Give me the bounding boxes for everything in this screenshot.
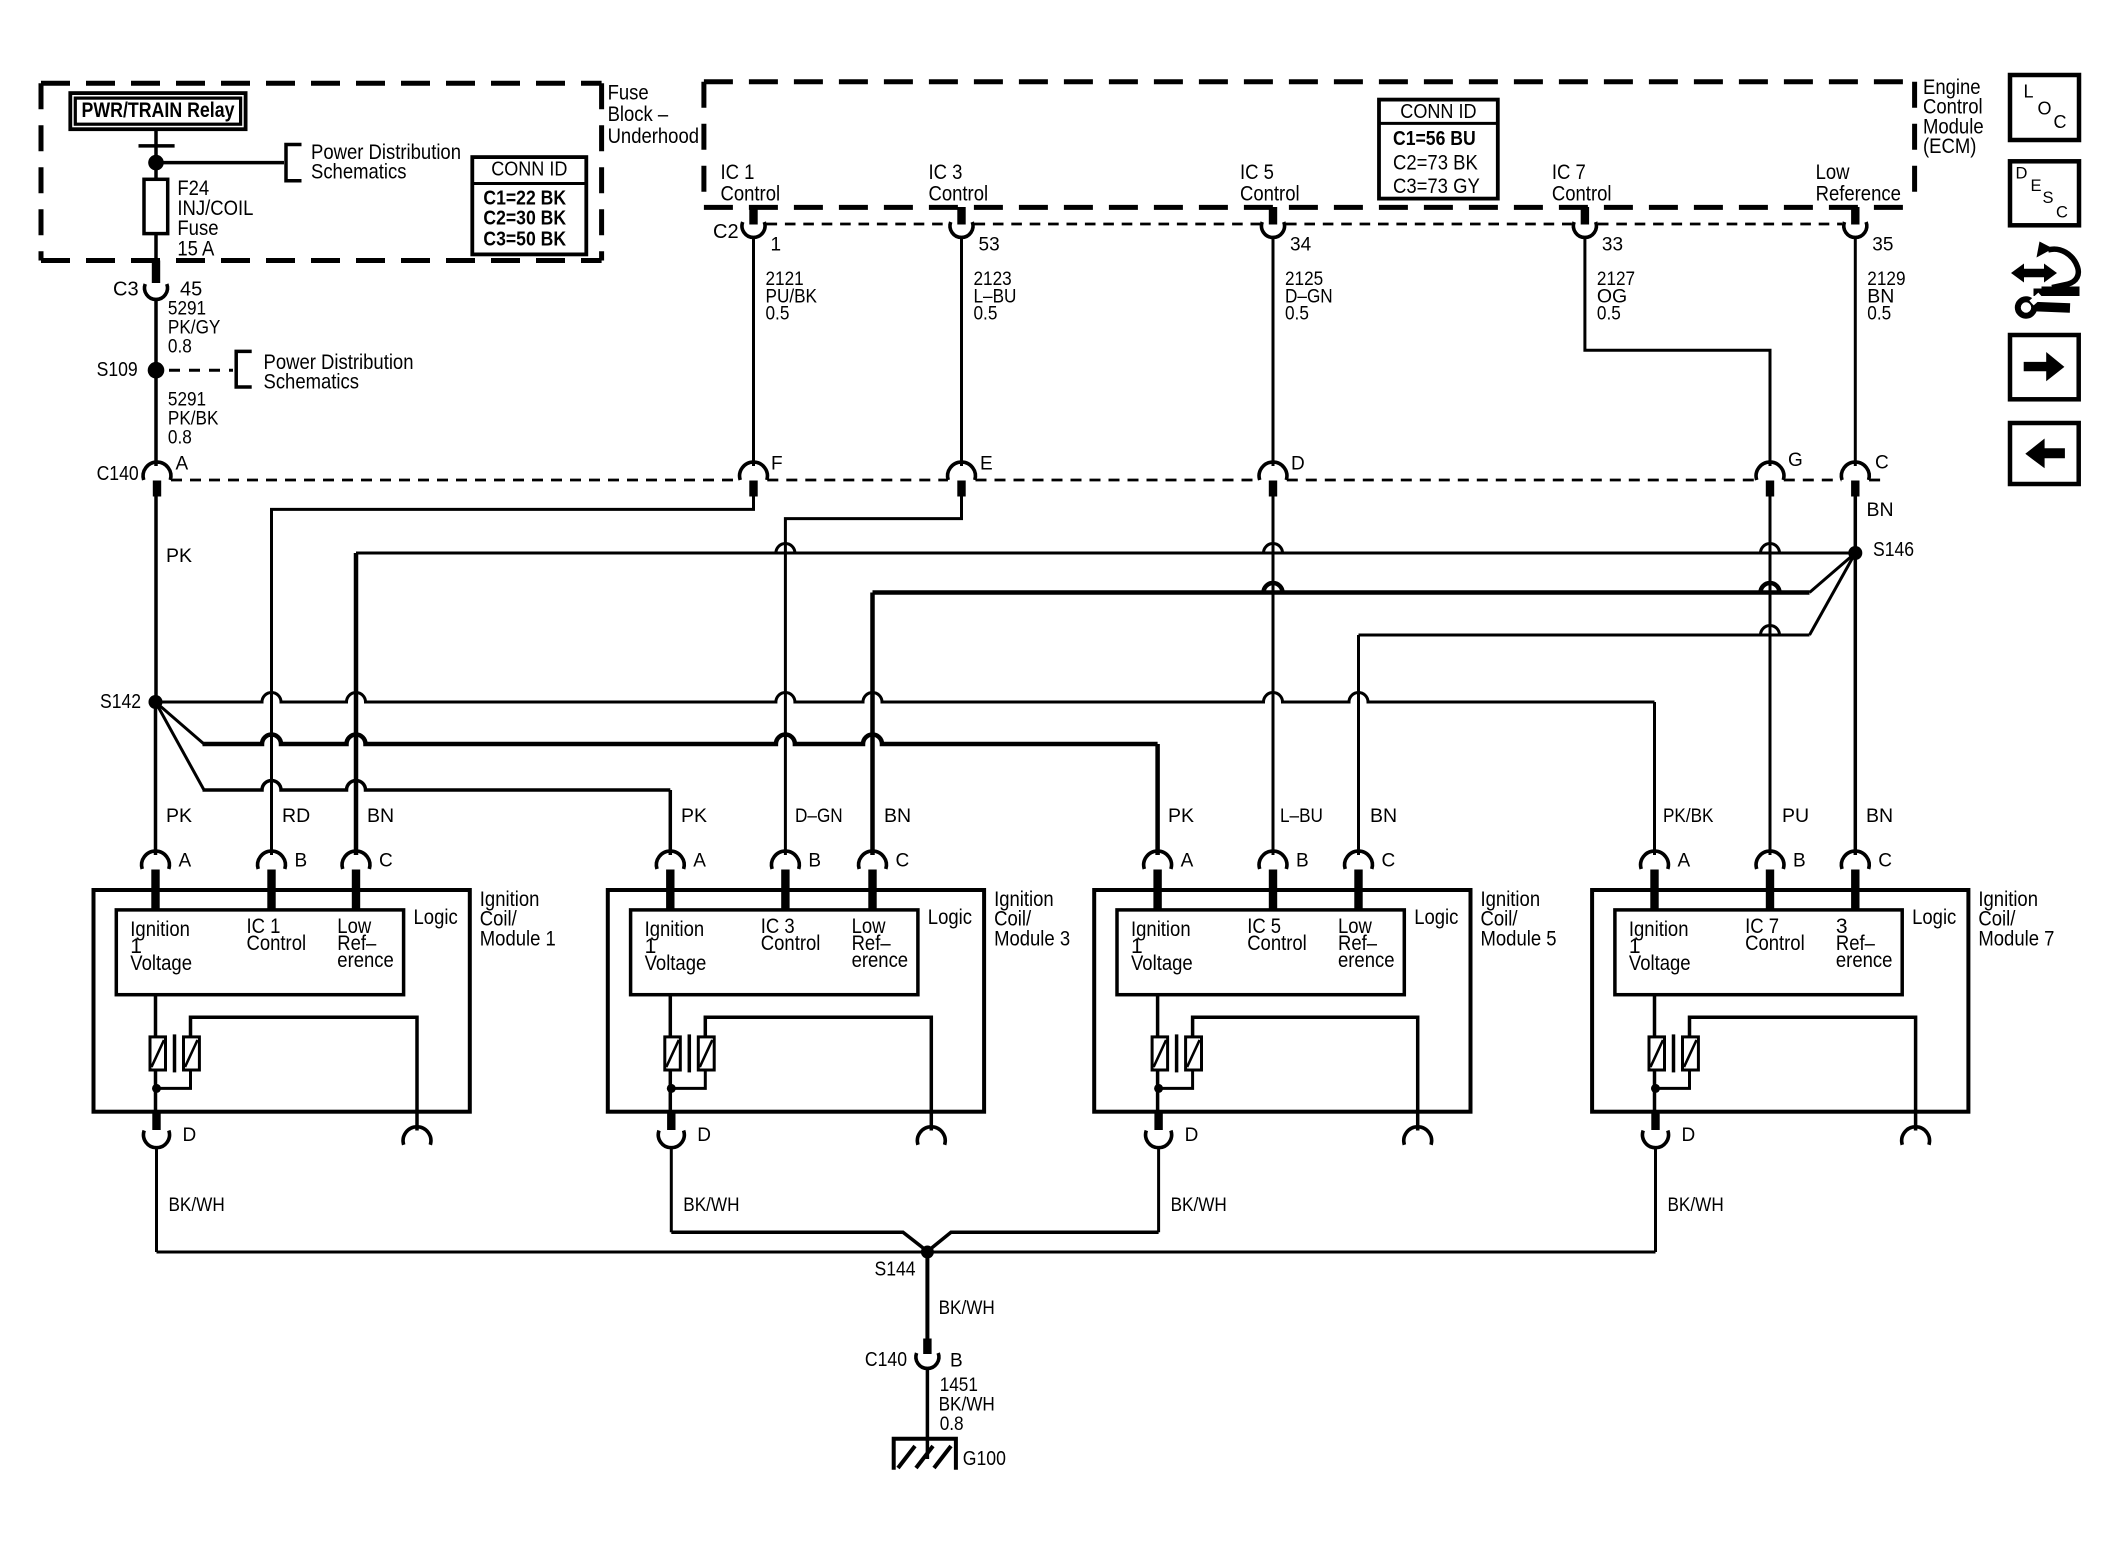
module 5 coil secondary winding — [1186, 1037, 1202, 1070]
module 3 side label — [994, 888, 1070, 951]
wire label 1451 BK/WH 0.8 — [939, 1374, 995, 1435]
module 7 pin A — [1641, 851, 1669, 910]
module 1 pin D — [144, 1112, 170, 1148]
svg-text:BN: BN — [1867, 499, 1894, 521]
wire IC7 control (2127) with jog — [1585, 237, 1770, 466]
module 3 spark output pin — [917, 1127, 945, 1145]
svg-text:C1=22 BK: C1=22 BK — [483, 187, 566, 209]
module 3 coil secondary winding — [698, 1037, 714, 1070]
module 3 coil primary winding — [665, 1037, 681, 1070]
svg-text:Control: Control — [1552, 182, 1612, 205]
svg-text:D: D — [1291, 453, 1305, 474]
module 5 pin C — [1345, 851, 1373, 910]
svg-text:O: O — [2038, 99, 2052, 119]
svg-text:S146: S146 — [1873, 539, 1914, 561]
svg-text:Logic: Logic — [1414, 906, 1458, 929]
module 3 coil junction dot — [667, 1084, 676, 1093]
svg-text:0.8: 0.8 — [168, 335, 192, 357]
label pin B module 3 — [808, 850, 821, 871]
svg-text:C: C — [896, 850, 910, 871]
svg-text:Low: Low — [1816, 161, 1851, 184]
svg-text:D: D — [1682, 1125, 1696, 1146]
label pin 34 — [1290, 234, 1312, 255]
icon LOC — [2010, 75, 2079, 140]
power distribution schematics label (S109) — [264, 351, 414, 394]
svg-text:B: B — [1296, 850, 1309, 871]
label pin A module 7 — [1678, 850, 1691, 871]
module 1 wire secondary bottom link — [157, 1070, 191, 1088]
BN bus S146 to module3 pin C — [873, 583, 1810, 855]
BK/WH bus — [157, 1251, 1656, 1254]
svg-text:C2=73 BK: C2=73 BK — [1393, 152, 1478, 175]
svg-text:erence: erence — [852, 949, 909, 972]
junction dot at relay output — [148, 155, 164, 171]
S146 diagonal to BN bus 3 — [1810, 553, 1856, 635]
svg-text:BK/WH: BK/WH — [169, 1194, 225, 1216]
module 3 Logic label — [928, 906, 972, 929]
svg-text:Control: Control — [721, 182, 781, 205]
S146 diagonal to BN bus 2 — [1810, 553, 1856, 593]
module 5 pin B — [1259, 851, 1287, 910]
label C (C140) — [1875, 452, 1889, 473]
module 1 side label — [480, 888, 556, 951]
label B — [950, 1350, 963, 1371]
svg-text:PWR/TRAIN Relay: PWR/TRAIN Relay — [82, 98, 235, 122]
svg-text:S: S — [2043, 189, 2054, 207]
PK bus S142 to module7 pin A — [156, 693, 1655, 856]
svg-text:C: C — [1878, 850, 1892, 871]
label pin C module 5 — [1382, 850, 1396, 871]
svg-text:0.5: 0.5 — [1285, 303, 1309, 325]
module 3 pin D — [658, 1112, 684, 1148]
bracket S109 power distribution — [236, 351, 252, 387]
label IC 3 Control — [929, 161, 989, 206]
module 1 coil primary winding — [150, 1037, 166, 1070]
wire D to module5 pin B — [1272, 497, 1275, 856]
ignition coil/module 1 box — [94, 890, 470, 1112]
module 7 spark output pin — [1902, 1127, 1930, 1145]
label pin A module 1 — [179, 850, 192, 871]
module 1 pin C — [342, 851, 370, 910]
icon back arrow — [2010, 423, 2079, 484]
wire label 5291 PK/BK 0.8 — [168, 389, 219, 449]
svg-text:IC 5: IC 5 — [1240, 161, 1274, 184]
ECM pin 1 (C2 connector) — [742, 207, 765, 237]
module 1 wire logic to coil — [154, 995, 158, 1037]
icon forward arrow — [2010, 335, 2079, 399]
ECM pin 53 (C2 connector) — [950, 207, 973, 237]
label IC 5 Control — [1240, 161, 1300, 206]
label pin A module 3 — [693, 850, 706, 871]
dashed link S109 to bracket — [169, 369, 233, 372]
module 1 coil secondary winding — [184, 1037, 200, 1070]
fuse F24 symbol — [144, 179, 168, 233]
svg-text:BN: BN — [884, 805, 911, 827]
label A — [176, 454, 189, 475]
wire label 2125 D–GN 0.5 — [1285, 268, 1333, 324]
connector C2 dashed line — [767, 223, 1843, 226]
svg-text:PK: PK — [166, 805, 192, 827]
label pin C module 7 — [1878, 850, 1892, 871]
BN bus S146 to module1 pin C — [356, 544, 1849, 856]
wire junction to power distribution bracket — [156, 161, 284, 165]
BN bus S146 to module5 pin C — [1359, 626, 1810, 856]
svg-text:BN: BN — [367, 805, 394, 827]
module 1 coil core — [173, 1034, 177, 1072]
svg-text:Schematics: Schematics — [311, 161, 407, 184]
label C140 (bottom) — [865, 1349, 907, 1371]
svg-text:PU: PU — [1782, 805, 1809, 827]
svg-text:1: 1 — [771, 234, 782, 255]
label IC 7 Control — [1552, 161, 1612, 206]
label E — [980, 453, 993, 474]
module 7 wire logic to coil — [1653, 995, 1657, 1037]
module 5 coil junction dot — [1154, 1084, 1163, 1093]
svg-text:Voltage: Voltage — [1131, 952, 1193, 975]
svg-text:C: C — [2054, 112, 2067, 132]
svg-text:Module 5: Module 5 — [1481, 927, 1557, 950]
svg-text:C: C — [379, 850, 393, 871]
label pin D module 7 — [1682, 1125, 1696, 1146]
wire from relay to fuse — [154, 129, 158, 179]
ignition coil/module 3 box — [608, 890, 984, 1112]
ignition coil/module 7 box — [1592, 890, 1968, 1112]
conn id table (fuse block) — [472, 157, 586, 254]
svg-text:G: G — [1788, 450, 1803, 471]
module 3 coil core — [688, 1034, 692, 1072]
label D (C140) — [1291, 453, 1305, 474]
fuse block label — [608, 81, 699, 148]
svg-text:35: 35 — [1872, 234, 1893, 255]
module 5 wire primary to pin D — [1156, 1070, 1160, 1112]
label Low Reference — [1816, 161, 1901, 206]
svg-text:G100: G100 — [963, 1448, 1006, 1470]
svg-text:D: D — [2016, 165, 2028, 183]
svg-text:C3=50 BK: C3=50 BK — [483, 228, 566, 250]
module 3 wire logic to coil — [669, 995, 673, 1037]
wire S109 to C140 A — [154, 370, 158, 466]
label pin 53 — [979, 234, 1000, 255]
label pin C module 3 — [896, 850, 910, 871]
svg-text:C140: C140 — [865, 1349, 907, 1371]
svg-text:A: A — [1678, 850, 1691, 871]
module 7 coil secondary winding — [1683, 1037, 1699, 1070]
svg-text:S109: S109 — [97, 359, 138, 381]
module 1 spark output pin — [403, 1127, 431, 1145]
svg-text:PK: PK — [166, 545, 192, 567]
label pin 33 — [1602, 234, 1623, 255]
svg-text:0.5: 0.5 — [1867, 303, 1891, 325]
svg-text:(ECM): (ECM) — [1923, 135, 1976, 158]
svg-text:PK: PK — [681, 805, 707, 827]
wire module5 pin D down — [1157, 1147, 1160, 1232]
module 7 BK/WH label — [1668, 1194, 1724, 1216]
wire label 2129 BN 0.5 — [1867, 268, 1905, 324]
module 3 wire secondary to spark output — [705, 1017, 931, 1130]
label G — [1788, 450, 1803, 471]
power distribution schematics label (top) — [311, 141, 461, 184]
svg-text:S142: S142 — [100, 691, 141, 713]
module 3 pin B — [772, 851, 800, 910]
ECM label — [1923, 76, 1984, 158]
module 7 pin C — [1841, 851, 1869, 910]
svg-text:B: B — [808, 850, 821, 871]
label pin B module 5 — [1296, 850, 1309, 871]
svg-text:A: A — [179, 850, 192, 871]
S142 diagonal to PK bus 3 — [156, 702, 205, 790]
module 5 pin A — [1144, 851, 1172, 910]
svg-text:C2: C2 — [713, 221, 739, 243]
label BN (above S146) — [1867, 499, 1894, 521]
module 1 pin A — [142, 851, 170, 910]
module 5 wire color labels — [1168, 805, 1397, 827]
svg-text:15 A: 15 A — [177, 237, 214, 260]
label IC 1 Control — [721, 161, 781, 206]
label pin D module 5 — [1185, 1125, 1199, 1146]
svg-text:Logic: Logic — [414, 906, 458, 929]
fuse F24 label — [177, 177, 253, 261]
module 1 BK/WH label — [169, 1194, 225, 1216]
connector C140 pin C — [1841, 462, 1869, 496]
svg-text:C1=56 BU: C1=56 BU — [1393, 128, 1476, 150]
module 1 Logic label — [414, 906, 458, 929]
module 7 coil junction dot — [1651, 1084, 1660, 1093]
module 7 wire color labels — [1663, 805, 1893, 827]
svg-text:E: E — [2031, 177, 2042, 195]
svg-text:C2=30 BK: C2=30 BK — [483, 208, 566, 230]
module 7 wire primary to pin D — [1653, 1070, 1657, 1112]
label C140 (left) — [97, 463, 139, 485]
wire fuse to C3 — [154, 234, 158, 265]
module 3 BK/WH label — [683, 1194, 739, 1216]
connector C140 pin D — [1259, 462, 1287, 496]
module 7 wire secondary to spark output — [1690, 1017, 1916, 1130]
svg-text:33: 33 — [1602, 234, 1623, 255]
svg-text:0.8: 0.8 — [940, 1413, 964, 1435]
svg-text:C: C — [2056, 204, 2068, 222]
svg-text:Voltage: Voltage — [1629, 952, 1691, 975]
relay output crossbar — [139, 144, 175, 148]
svg-text:0.5: 0.5 — [1597, 303, 1621, 325]
relay K - PWR/TRAIN Relay box — [70, 93, 245, 129]
wire label 2121 PU/BK 0.5 — [766, 268, 818, 324]
svg-text:IC 3: IC 3 — [929, 161, 963, 184]
PK bus S142 to module5 pin A — [203, 735, 1158, 856]
svg-text:erence: erence — [337, 949, 394, 972]
splice S142 — [100, 691, 163, 713]
module 1 wire secondary to spark output — [191, 1017, 418, 1130]
svg-text:Control: Control — [247, 932, 307, 955]
label C3 — [113, 279, 139, 301]
ground G100 — [894, 1439, 956, 1470]
module 5 BK/WH label — [1171, 1194, 1227, 1216]
svg-text:34: 34 — [1290, 234, 1312, 255]
module 3 wire primary to pin D — [669, 1070, 673, 1112]
wire module3 pin D down — [670, 1147, 673, 1232]
wire label 2123 L–BU 0.5 — [974, 268, 1017, 324]
module 1 wire color labels — [166, 805, 394, 827]
svg-text:Control: Control — [929, 182, 989, 205]
module 5 wire secondary bottom link — [1159, 1070, 1193, 1088]
conn id table (ECM) — [1379, 100, 1498, 199]
svg-text:E: E — [980, 453, 993, 474]
connector C3 pin 45 — [145, 261, 168, 300]
wire C to S146 (BN) — [1854, 497, 1858, 554]
svg-text:C140: C140 — [97, 463, 139, 485]
svg-text:Block –: Block – — [608, 103, 669, 126]
svg-text:B: B — [950, 1350, 963, 1371]
wire S146 to module7 pin C — [1854, 553, 1858, 855]
svg-text:0.8: 0.8 — [168, 426, 192, 448]
wire module3 merge to S144 — [671, 1232, 924, 1249]
wire module5 merge to S144 — [930, 1232, 1158, 1249]
wire IC5 control (2125) — [1272, 237, 1275, 466]
label pin B module 1 — [295, 850, 308, 871]
svg-text:Logic: Logic — [1912, 906, 1956, 929]
ECM pin 33 (C2 connector) — [1573, 207, 1596, 237]
ECM pin 34 (C2 connector) — [1261, 207, 1284, 237]
wire label 2127 OG 0.5 — [1597, 268, 1635, 324]
connector C140 pin G — [1756, 462, 1784, 496]
svg-text:IC 7: IC 7 — [1552, 161, 1586, 184]
module 7 coil core — [1672, 1034, 1676, 1072]
connector C140 pin E — [948, 462, 976, 496]
wire module7 pin D to bus — [1654, 1147, 1657, 1252]
svg-text:PK/BK: PK/BK — [1663, 805, 1714, 827]
label pin D module 3 — [697, 1125, 711, 1146]
svg-text:Fuse: Fuse — [608, 81, 649, 104]
connector C140 pin B — [916, 1339, 939, 1369]
icon schematic navigation (arrows and wrench) — [2011, 242, 2080, 316]
wire E to module3 pin B — [785, 497, 961, 856]
connector C140 pin A — [143, 462, 171, 496]
wire C140-A to S142 (PK) — [154, 497, 158, 703]
svg-text:D: D — [183, 1125, 197, 1146]
svg-text:CONN ID: CONN ID — [1400, 100, 1476, 123]
ignition coil/module 5 box — [1094, 890, 1470, 1112]
module 1 wire primary to pin D — [154, 1070, 158, 1112]
svg-text:C3=73 GY: C3=73 GY — [1393, 175, 1480, 198]
wire IC3 control (2123) — [960, 237, 963, 466]
svg-text:BN: BN — [1866, 805, 1893, 827]
label G100 — [963, 1448, 1006, 1470]
label pin 1 — [771, 234, 782, 255]
svg-text:F: F — [771, 453, 783, 474]
label pin 35 — [1872, 234, 1893, 255]
svg-text:erence: erence — [1836, 949, 1893, 972]
svg-text:Module 1: Module 1 — [480, 927, 556, 950]
splice S144 — [875, 1246, 934, 1281]
svg-text:IC 1: IC 1 — [721, 161, 755, 184]
wire low reference (2129) — [1854, 237, 1857, 466]
svg-text:B: B — [1793, 850, 1806, 871]
module 5 coil core — [1175, 1034, 1179, 1072]
label pin B module 7 — [1793, 850, 1806, 871]
module 5 coil primary winding — [1152, 1037, 1168, 1070]
svg-text:Control: Control — [761, 932, 821, 955]
module 5 pin D — [1146, 1112, 1172, 1148]
module 3 pin A — [656, 851, 684, 910]
label PK (upper left) — [166, 545, 192, 567]
svg-text:A: A — [1181, 850, 1194, 871]
svg-text:A: A — [176, 454, 189, 475]
module 7 inner labels — [1629, 915, 1893, 975]
PK bus S142 to module3 pin A — [203, 781, 671, 856]
svg-text:Logic: Logic — [928, 906, 972, 929]
module 5 wire logic to coil — [1156, 995, 1160, 1037]
label F — [771, 453, 783, 474]
svg-text:Module 3: Module 3 — [994, 927, 1070, 950]
S142 diagonal to PK bus 2 — [156, 702, 205, 744]
module 3 pin C — [859, 851, 887, 910]
connector C140 dashed line — [171, 479, 1886, 482]
svg-text:L–BU: L–BU — [1280, 805, 1323, 827]
icon DESC — [2010, 161, 2079, 225]
module 1 inner labels — [130, 915, 394, 975]
svg-text:BK/WH: BK/WH — [683, 1194, 739, 1216]
ECM pin 35 (C2 connector) — [1844, 207, 1867, 237]
wire S144 to C140 B — [925, 1252, 929, 1339]
label 45 — [180, 279, 202, 301]
svg-text:0.5: 0.5 — [766, 303, 790, 325]
svg-text:Schematics: Schematics — [264, 371, 360, 394]
module 1 coil junction dot — [152, 1084, 161, 1093]
svg-text:Control: Control — [1240, 182, 1300, 205]
svg-text:D–GN: D–GN — [795, 805, 843, 827]
wire C140-B to ground — [926, 1368, 930, 1459]
module 5 Logic label — [1414, 906, 1458, 929]
wire label 5291 PK/GY 0.8 — [168, 298, 221, 358]
svg-text:C: C — [1382, 850, 1396, 871]
splice S146 — [1848, 539, 1914, 561]
module 5 side label — [1481, 888, 1557, 951]
svg-text:0.5: 0.5 — [974, 303, 998, 325]
svg-text:B: B — [295, 850, 308, 871]
svg-text:L: L — [2024, 82, 2034, 102]
svg-text:CONN ID: CONN ID — [491, 158, 567, 181]
label C2 — [713, 221, 739, 243]
module 7 side label — [1978, 888, 2054, 951]
module 5 wire secondary to spark output — [1193, 1017, 1418, 1130]
bracket to power distribution schematics — [286, 145, 302, 181]
module 3 wire secondary bottom link — [671, 1070, 705, 1088]
svg-text:Control: Control — [1247, 932, 1307, 955]
module 3 wire color labels — [681, 805, 911, 827]
svg-text:C3: C3 — [113, 279, 139, 301]
svg-text:C: C — [1875, 452, 1889, 473]
svg-text:D: D — [697, 1125, 711, 1146]
svg-text:BK/WH: BK/WH — [939, 1297, 995, 1319]
wire G to module7 pin B — [1769, 497, 1772, 856]
wire F to module1 pin B — [272, 497, 754, 856]
label pin A module 5 — [1181, 850, 1194, 871]
module 5 inner labels — [1131, 915, 1395, 975]
wire IC1 control (2121) — [752, 237, 755, 466]
label pin D module 1 — [183, 1125, 197, 1146]
svg-text:RD: RD — [282, 805, 310, 827]
splice S109 — [97, 359, 165, 381]
svg-text:BK/WH: BK/WH — [1668, 1194, 1724, 1216]
svg-text:D: D — [1185, 1125, 1199, 1146]
svg-text:BN: BN — [1370, 805, 1397, 827]
svg-text:Control: Control — [1745, 932, 1805, 955]
svg-text:A: A — [693, 850, 706, 871]
svg-text:erence: erence — [1338, 949, 1395, 972]
module 7 coil primary winding — [1649, 1037, 1665, 1070]
module 3 inner labels — [645, 915, 909, 975]
svg-text:S144: S144 — [875, 1259, 916, 1281]
module 5 spark output pin — [1404, 1127, 1432, 1145]
